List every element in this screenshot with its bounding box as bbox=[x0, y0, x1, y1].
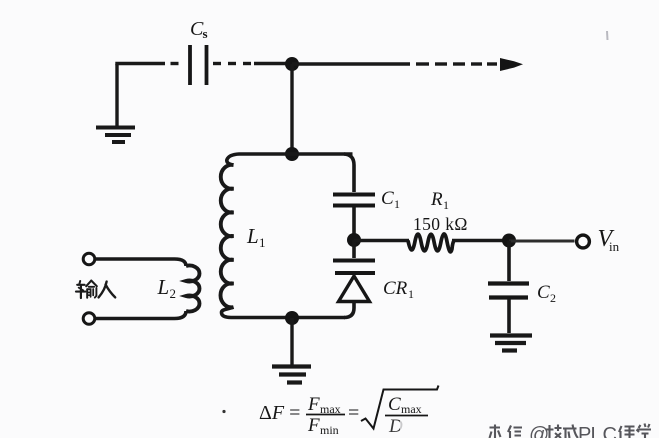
svg-text:ΔF =: ΔF = bbox=[259, 402, 300, 424]
input terminal bottom bbox=[83, 313, 95, 325]
svg-text:in: in bbox=[609, 239, 620, 254]
svg-text:min: min bbox=[320, 423, 339, 437]
wire node to R1 bbox=[354, 239, 409, 242]
wire top-left horizontal bbox=[115, 62, 165, 65]
arrow head bbox=[500, 58, 523, 71]
wire C1 to node bbox=[352, 207, 356, 240]
wire to center ground bbox=[290, 318, 293, 365]
svg-text:CR: CR bbox=[383, 278, 408, 299]
faint mark top right bbox=[606, 31, 609, 40]
svg-text:F: F bbox=[307, 415, 320, 436]
入 bbox=[99, 282, 107, 298]
svg-text:2: 2 bbox=[170, 286, 177, 301]
capacitor C2 bbox=[488, 282, 556, 305]
svg-text:L: L bbox=[157, 275, 170, 299]
formula delta F bbox=[222, 386, 438, 438]
成 top bbox=[563, 425, 578, 438]
svg-text:1: 1 bbox=[408, 287, 414, 301]
svg-text:150 kΩ: 150 kΩ bbox=[413, 214, 468, 234]
node junction dot top bbox=[285, 57, 299, 71]
capacitor C1 bbox=[333, 188, 400, 211]
wire loop right top bbox=[344, 154, 354, 192]
terminal Vin bbox=[577, 235, 590, 248]
svg-text:@: @ bbox=[529, 424, 549, 438]
node junction dot loop bottom bbox=[285, 311, 299, 325]
square root bbox=[361, 386, 439, 429]
输 right part 俞 bbox=[86, 281, 91, 287]
svg-text:s: s bbox=[203, 26, 208, 41]
堂 top bbox=[637, 424, 652, 438]
wire L2 bottom bbox=[96, 311, 187, 319]
私 top bbox=[490, 425, 501, 438]
svg-text:max: max bbox=[401, 402, 422, 416]
wire L2 top bbox=[96, 259, 187, 266]
svg-text:C: C bbox=[388, 394, 401, 415]
wire node to Vin terminal bbox=[509, 240, 575, 243]
ground top-left bbox=[96, 64, 135, 142]
inductor L2 bbox=[186, 266, 199, 312]
wire loop bottom bbox=[222, 307, 346, 317]
ground center bbox=[272, 367, 311, 383]
svg-text:L: L bbox=[591, 424, 602, 438]
resistor R1 bbox=[408, 234, 454, 252]
varactor CR1 bbox=[333, 261, 414, 302]
wire CR1 to loop bottom bbox=[344, 302, 354, 318]
wire dash before Cs bbox=[171, 62, 179, 65]
svg-text:2: 2 bbox=[550, 291, 556, 305]
input terminal top bbox=[83, 253, 95, 265]
wire node to C2 bbox=[507, 241, 511, 282]
label input 输入 drawn as vector strokes bbox=[76, 281, 115, 298]
wire node to CR1 bbox=[352, 240, 356, 258]
svg-text:R: R bbox=[430, 189, 443, 210]
capacitor Cs bbox=[190, 18, 208, 85]
watermark bottom right (partially cropped grey text) bbox=[490, 424, 652, 438]
wire R1 to node bbox=[452, 239, 509, 242]
技 top bbox=[546, 425, 562, 438]
课 top bbox=[619, 426, 635, 438]
svg-text:1: 1 bbox=[394, 197, 400, 211]
svg-text:L: L bbox=[246, 224, 259, 248]
wire loop top bbox=[227, 154, 353, 165]
inductor L1 bbox=[221, 165, 234, 307]
svg-text:C: C bbox=[381, 188, 394, 209]
node junction dot R1/C2 bbox=[502, 234, 516, 248]
svg-text:1: 1 bbox=[443, 198, 449, 212]
wire top solid to dashed arrow bbox=[292, 62, 410, 65]
信 top bbox=[508, 426, 522, 438]
wire vertical node to loop bbox=[290, 64, 293, 154]
node junction dot on loop top bbox=[285, 147, 299, 161]
svg-text:P: P bbox=[578, 424, 591, 438]
ground right bbox=[490, 336, 532, 351]
wire C2 to ground bbox=[507, 299, 511, 333]
wire dashes after Cs bbox=[213, 62, 292, 65]
svg-text:F: F bbox=[307, 394, 320, 415]
svg-text:=: = bbox=[348, 402, 359, 424]
svg-text:C: C bbox=[603, 424, 617, 438]
svg-text:C: C bbox=[537, 282, 550, 303]
node junction dot between C1 and CR1 bbox=[347, 233, 361, 247]
输 left radical 车 bbox=[77, 284, 84, 286]
svg-text:1: 1 bbox=[259, 235, 266, 250]
